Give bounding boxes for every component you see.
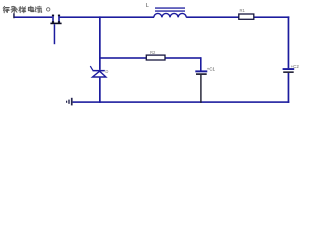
svg-text:D: D (105, 69, 108, 74)
svg-text:L: L (146, 3, 149, 9)
svg-text:+C2: +C2 (291, 64, 300, 69)
svg-text:R1: R1 (240, 8, 246, 13)
svg-text:R2: R2 (150, 50, 156, 55)
svg-text:+C1: +C1 (207, 67, 216, 72)
